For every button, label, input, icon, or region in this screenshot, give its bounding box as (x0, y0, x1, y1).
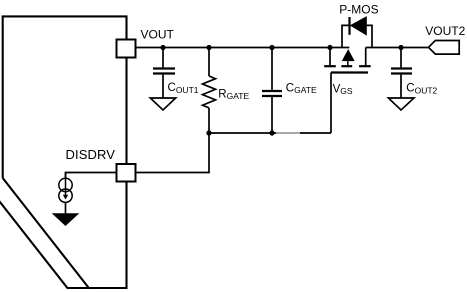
body diode triangle (351, 17, 367, 35)
gate wire down to rail (330, 73, 332, 134)
node dot at COUT2 (398, 45, 403, 50)
svg-text:VOUT2: VOUT2 (425, 24, 465, 38)
svg-text:VGS: VGS (333, 84, 353, 96)
arrow to substrate (filled triangle) (53, 214, 78, 226)
current source circles (59, 178, 72, 191)
node dot at CGATE top (269, 45, 274, 50)
node dot RGATE bottom (206, 130, 211, 135)
capacitor COUT1 (153, 48, 175, 98)
svg-text:RGATE: RGATE (218, 88, 249, 101)
off-page connector VOUT2 (429, 41, 460, 55)
svg-text:P-MOS: P-MOS (339, 3, 378, 17)
node dot at MOSFET drain (327, 45, 332, 50)
wire: top rail source side (366, 47, 429, 49)
wire: bottom gate rail (209, 132, 276, 134)
pin pad VOUT (117, 40, 136, 58)
current source arrow (65, 173, 67, 196)
IC block outline (0, 16, 127, 288)
capacitor COUT2 (391, 48, 412, 98)
body channel bar (341, 65, 352, 67)
wire below current source (65, 202, 67, 213)
ground under COUT1 (150, 98, 175, 110)
body diode cathode bar (348, 17, 350, 35)
svg-text:DISDRV: DISDRV (66, 147, 116, 162)
body arrow (points up) (342, 50, 354, 61)
gate bar (331, 71, 368, 73)
IC tear diagonal lower (0, 201, 68, 289)
MOSFET Q1 P-channel (324, 48, 371, 73)
drain stub (329, 48, 331, 66)
source channel bar (359, 65, 371, 67)
drain channel bar (324, 65, 336, 67)
source stub (365, 48, 367, 66)
pin pad DISDRV (117, 164, 136, 182)
node dot CGATE bottom (269, 130, 274, 135)
svg-text:CGATE: CGATE (286, 83, 317, 96)
wire: bottom gate rail grey segment (276, 132, 300, 134)
body stem (347, 61, 349, 67)
wire: DISDRV to gate rail (136, 133, 210, 173)
capacitor CGATE (262, 48, 282, 134)
node dot at COUT1 (160, 45, 165, 50)
wire: top rail drain side (136, 47, 350, 49)
body diode loop wires (342, 25, 372, 47)
IC tear diagonal upper (3, 178, 90, 289)
wire: bottom gate rail to gate (300, 132, 331, 134)
wire: DISDRV pad to current source (66, 173, 117, 179)
resistor RGATE (203, 48, 216, 134)
node dot at RGATE top (206, 45, 211, 50)
ground under COUT2 (388, 98, 414, 110)
svg-text:VOUT: VOUT (141, 27, 175, 41)
